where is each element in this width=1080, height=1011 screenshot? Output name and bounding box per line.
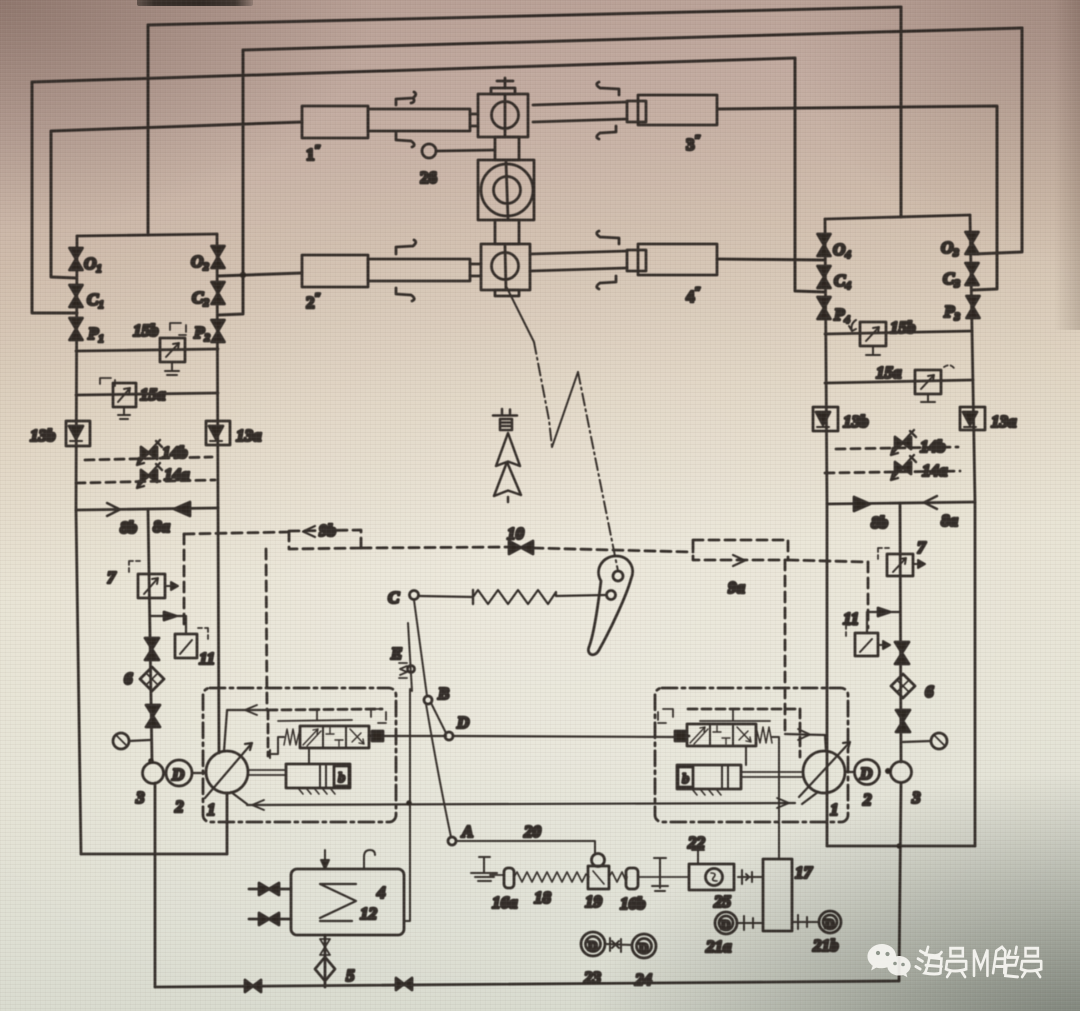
cylinder 4" piston box (627, 250, 646, 271)
cylinder 1" piston box (368, 109, 470, 131)
tiller pin top (613, 571, 623, 581)
throttle 14a right (891, 455, 916, 480)
relief valve 15a (100, 378, 136, 419)
right control dashed box (688, 709, 800, 757)
right pilot spring bracket (658, 709, 673, 723)
left tank bottom run (81, 853, 227, 856)
crosshead neck 1 (495, 137, 519, 160)
valve O4 (818, 234, 831, 256)
wire T2 (243, 28, 1022, 50)
right 8 row (827, 502, 975, 504)
pipe cylinder 2 to O2/C2 junction (218, 273, 302, 276)
left pilot line (278, 709, 352, 721)
crosshead top pin (497, 78, 513, 88)
tie rod 26 circle (422, 144, 436, 158)
crosshead lower circle (492, 253, 519, 280)
valve left connector right (675, 731, 689, 741)
right dashed row 14a (825, 471, 960, 473)
relief valve 15b (160, 323, 186, 375)
check arrow 8a (174, 502, 190, 516)
cylinder 3" bottom port hook (597, 126, 616, 139)
unloading valve 11 left (175, 628, 208, 658)
wechat bubble small (887, 956, 911, 977)
crosshead neck 2 (495, 220, 519, 244)
left block left column (76, 236, 77, 510)
pump bottom port left (231, 792, 247, 804)
right block top edge (825, 215, 970, 219)
valve O2 (212, 246, 225, 268)
cylinder 3" ram rod (533, 102, 627, 122)
cooler drain line (324, 935, 327, 987)
relief valve 15a right (915, 365, 954, 402)
valve to D link (383, 735, 446, 737)
watermark text haiyuan M chuanyuan (916, 947, 1041, 977)
valve P2 (212, 320, 225, 342)
valve P1 (70, 318, 83, 340)
stop element (652, 858, 668, 891)
cylinder 4" ram rod (530, 251, 627, 271)
pump top port left (224, 710, 267, 751)
rudder link dash-dot to tiller (578, 372, 618, 571)
left block right column lower (218, 508, 219, 753)
cooler tank 4/12 (291, 869, 404, 935)
joint A (448, 837, 456, 845)
valve O1 (70, 248, 83, 270)
steering rod 20 (456, 841, 595, 854)
link to telemotor 17 (778, 754, 780, 859)
dashed drop to left pump control (266, 549, 267, 710)
left pilot spring bracket (371, 709, 386, 723)
right 15b row (825, 331, 972, 334)
joint E (408, 666, 415, 673)
motor 24 (632, 934, 656, 958)
rudder stock centerline (506, 162, 508, 219)
cylinder 3" top port hook (597, 82, 619, 95)
right block right column lower (974, 502, 977, 846)
cylinder 1" barrel (302, 106, 368, 138)
cylinder 1" rod (470, 114, 478, 126)
coupling 25-17 (738, 870, 763, 884)
right return riser (899, 783, 901, 981)
check valve 13b (66, 421, 90, 446)
label shou (bow) glyph (493, 409, 517, 430)
right dashed row 14b (836, 447, 958, 449)
shutoff valve right upper (895, 642, 909, 664)
left block right column (217, 234, 218, 508)
follower 19 (588, 854, 609, 890)
check arrow 8a right (924, 496, 937, 509)
port arrow top left (245, 705, 257, 715)
drain check valve (320, 939, 330, 955)
cylinder 2" top port hook (396, 240, 416, 254)
cylinder 3" barrel (638, 95, 717, 125)
rudder stock block (478, 160, 534, 220)
crosshead upper circle (492, 102, 519, 129)
right center column upper (900, 503, 901, 762)
glyph M (974, 950, 987, 976)
tie rod 26 link (436, 150, 495, 151)
cylinder 2" barrel (302, 255, 368, 287)
telemotor transmitter 25 (689, 864, 734, 890)
bottom port arrow left (252, 800, 264, 810)
cylinder 3" piston box (627, 101, 646, 122)
unloading branch left (150, 616, 186, 634)
wire T3 right drop to C4/P4 junction (795, 58, 824, 292)
rudder stock outer circle (481, 164, 533, 216)
feedback spring (419, 590, 605, 604)
crosshead lower centerline (505, 246, 506, 290)
9b arrow (303, 526, 315, 537)
cooler inlet lower (249, 918, 291, 921)
servo hatch left (298, 788, 335, 794)
coupling 17-21b (792, 915, 818, 929)
cooler inflow arrow (321, 850, 329, 869)
wire T2 left drop to C2/P2 junction (218, 50, 243, 315)
branch arrow left (164, 612, 176, 620)
unloading valve 11 right (846, 625, 890, 656)
joint C (410, 591, 419, 600)
tiller pin lower (607, 591, 616, 600)
wire T3 (32, 58, 795, 82)
port arrow top right (798, 729, 810, 740)
left return column (154, 783, 157, 987)
right block right column (970, 215, 975, 502)
throttle 14b right (891, 430, 916, 455)
check valve 13b right (813, 407, 838, 431)
lever E extension (408, 623, 412, 691)
glyph yuan2 (1021, 948, 1041, 977)
cylinder 1" bottom port hook (396, 133, 414, 147)
bottom port arrow right (777, 798, 789, 808)
throttle 14a (137, 463, 162, 488)
valve right end link (772, 737, 779, 754)
wire T1 left drop (147, 25, 150, 235)
coupling 23-24 (605, 938, 632, 952)
feedback spring anchor bar (472, 590, 474, 604)
servo cylinder b right (677, 765, 741, 789)
valve left end link (270, 737, 284, 758)
right block left column lower (826, 504, 829, 846)
cylinder 2" bottom port hook (396, 288, 414, 301)
glyph yuan1 (946, 948, 966, 977)
servo cylinder b left (286, 764, 350, 788)
pump bottom port right (802, 792, 818, 804)
cooler vent hook (364, 850, 375, 869)
pipe cylinder 3 to P3 junction (719, 106, 997, 290)
cooler inlet valve upper (259, 883, 279, 895)
joint D (445, 732, 453, 740)
cylinder 4" top port hook (597, 231, 619, 244)
rod to stop (638, 876, 689, 878)
valve 10 (509, 541, 533, 554)
pipe cylinder 4 to O4/C4 junction (717, 259, 824, 260)
servo rod right (741, 772, 803, 777)
left 15b row (76, 349, 218, 351)
left 8 row (76, 508, 218, 510)
shutoff valve left upper (145, 638, 159, 660)
crosshead upper centerline (504, 95, 507, 137)
branch arrow right (878, 608, 890, 616)
filter 6 left (140, 667, 164, 691)
9b dashed box (289, 530, 361, 549)
right pilot line (700, 709, 770, 721)
motor 21a (715, 912, 737, 934)
junction dot left column tank (148, 758, 154, 764)
cooler inlet upper (249, 888, 291, 891)
bottom main wire (155, 981, 899, 987)
valve to servo link right (745, 746, 747, 765)
cylinder 1" top port hook (396, 92, 416, 105)
directional valve right (687, 724, 756, 746)
check arrow 8b (107, 503, 120, 516)
slider 16b (626, 868, 638, 889)
valve right end spring (756, 727, 772, 743)
dashed drop to valve 11 left (183, 534, 186, 630)
wire T2 right drop to O3/C3 junction (974, 28, 1022, 254)
motor 2 left (166, 760, 192, 786)
dark bar at top (photo artifact) (137, 0, 253, 6)
bottom wire valve right (396, 978, 412, 990)
cylinder 4" barrel (638, 244, 717, 275)
glyph chuan (993, 947, 1018, 977)
left dashed row 14b (85, 457, 212, 460)
servo rod left (249, 770, 286, 775)
D to right valve link (453, 736, 675, 737)
motor 23 (581, 932, 605, 956)
right tank bottom run (827, 845, 975, 848)
wechat bubble large (868, 944, 897, 971)
anchor 16a (471, 857, 514, 888)
heat exchanger coil (320, 884, 356, 921)
dashed pilot line 9b left tail (184, 532, 289, 534)
pump top port right (785, 734, 826, 751)
lightning link (552, 372, 578, 447)
handwheel stem 22 (692, 850, 704, 864)
junction dot right shaft (885, 768, 891, 774)
rudder stock link dash-dot upper (534, 342, 552, 447)
left 15a row (76, 393, 218, 395)
servo bottom line (247, 803, 795, 805)
crosshead upper flange (491, 88, 515, 94)
valve C4 (818, 266, 831, 288)
valve to servo link (308, 748, 310, 764)
wire T1 top outer (148, 7, 901, 25)
link C to B (414, 600, 427, 696)
left block left column lower (76, 510, 81, 854)
glyph hai (916, 947, 942, 974)
wire T1 right drop (900, 7, 903, 217)
valve C3 (966, 263, 979, 285)
bow direction arrow (494, 433, 521, 502)
tank 3 left (143, 763, 164, 784)
junction dot tank run right (896, 843, 901, 848)
dashed link to right unloading (788, 560, 868, 562)
motor 21b (819, 911, 841, 933)
spring 18 (514, 872, 589, 882)
valve P4 (818, 297, 831, 319)
left dashed row 14a (76, 480, 215, 483)
cooler inlet valve lower (259, 913, 279, 925)
shaft 2-1 left (164, 772, 206, 774)
left center column (148, 509, 152, 762)
right block left column (825, 219, 827, 503)
joint B (424, 696, 432, 704)
directional valve left (300, 726, 369, 748)
valve C2 (212, 282, 225, 304)
dashed drop to valve 11 right (867, 562, 870, 628)
throttle 14b (137, 440, 162, 465)
left block top edge (77, 234, 217, 236)
shutoff valve left lower (146, 705, 160, 727)
lever B to A (426, 704, 451, 837)
dashed pilot main line (361, 547, 509, 548)
dashed pilot main line right (533, 548, 693, 552)
check valve 13a right (960, 407, 985, 430)
valve P3 (967, 296, 980, 318)
right 15a row (825, 380, 973, 383)
left control dashed box (268, 709, 382, 756)
junction dot servo bottom line (406, 800, 412, 806)
bottom wire valve left (245, 980, 261, 992)
cylinder 4" bottom port hook (597, 276, 616, 289)
crosshead upper block (478, 94, 528, 137)
shaft 2-1 right (846, 771, 854, 773)
link B to D (431, 703, 446, 733)
relief valve 7 left (129, 561, 178, 598)
tank 3 right (891, 762, 912, 783)
9a dashed box (693, 540, 788, 560)
E anchor spring (399, 663, 407, 678)
wire T3 left drop to C1/P1 junction (32, 82, 77, 313)
main pump 1 left (205, 743, 252, 798)
dashed drop to right pump control (784, 560, 787, 730)
pipe cylinder 1 to O1/C1 junction (51, 122, 302, 278)
check arrow 8b right (854, 497, 870, 511)
rudder stock middle circle (494, 177, 521, 204)
main pump 1 right (799, 742, 850, 797)
filter 6 right (891, 674, 915, 698)
pressure gauge left (113, 733, 150, 749)
tiller (588, 556, 632, 655)
left pump suction riser (226, 793, 229, 854)
junction dot T2 x 2"pipe (240, 272, 246, 278)
valve C1 (70, 285, 83, 307)
relief valve 15b right (849, 320, 886, 355)
right pump group boundary dash-dot (655, 688, 848, 822)
check valve 13a (206, 421, 230, 445)
cylinder 2" rod (470, 264, 481, 276)
coupling 17-21a (737, 916, 763, 930)
servo hatch right (692, 789, 721, 795)
relief valve 7 right (878, 548, 925, 576)
spring 18 right part (609, 872, 627, 882)
left pump group boundary dash-dot (203, 688, 396, 822)
filter 5 (315, 957, 335, 981)
motor 2 right (855, 760, 880, 785)
crosshead lower block (481, 244, 530, 290)
valve left end spring (284, 729, 300, 745)
unloading branch right (867, 612, 900, 633)
valve right connector (369, 731, 383, 741)
9a arrow (733, 555, 745, 566)
receiver 17 (763, 859, 792, 931)
rudder stock link solid (507, 288, 534, 342)
cylinder 2" piston box (368, 259, 470, 281)
shutoff valve right lower (896, 710, 910, 732)
cooler return side line (404, 689, 410, 921)
pressure gauge right (903, 733, 947, 749)
crosshead lower flange (495, 290, 519, 296)
valve O3 (966, 232, 979, 254)
